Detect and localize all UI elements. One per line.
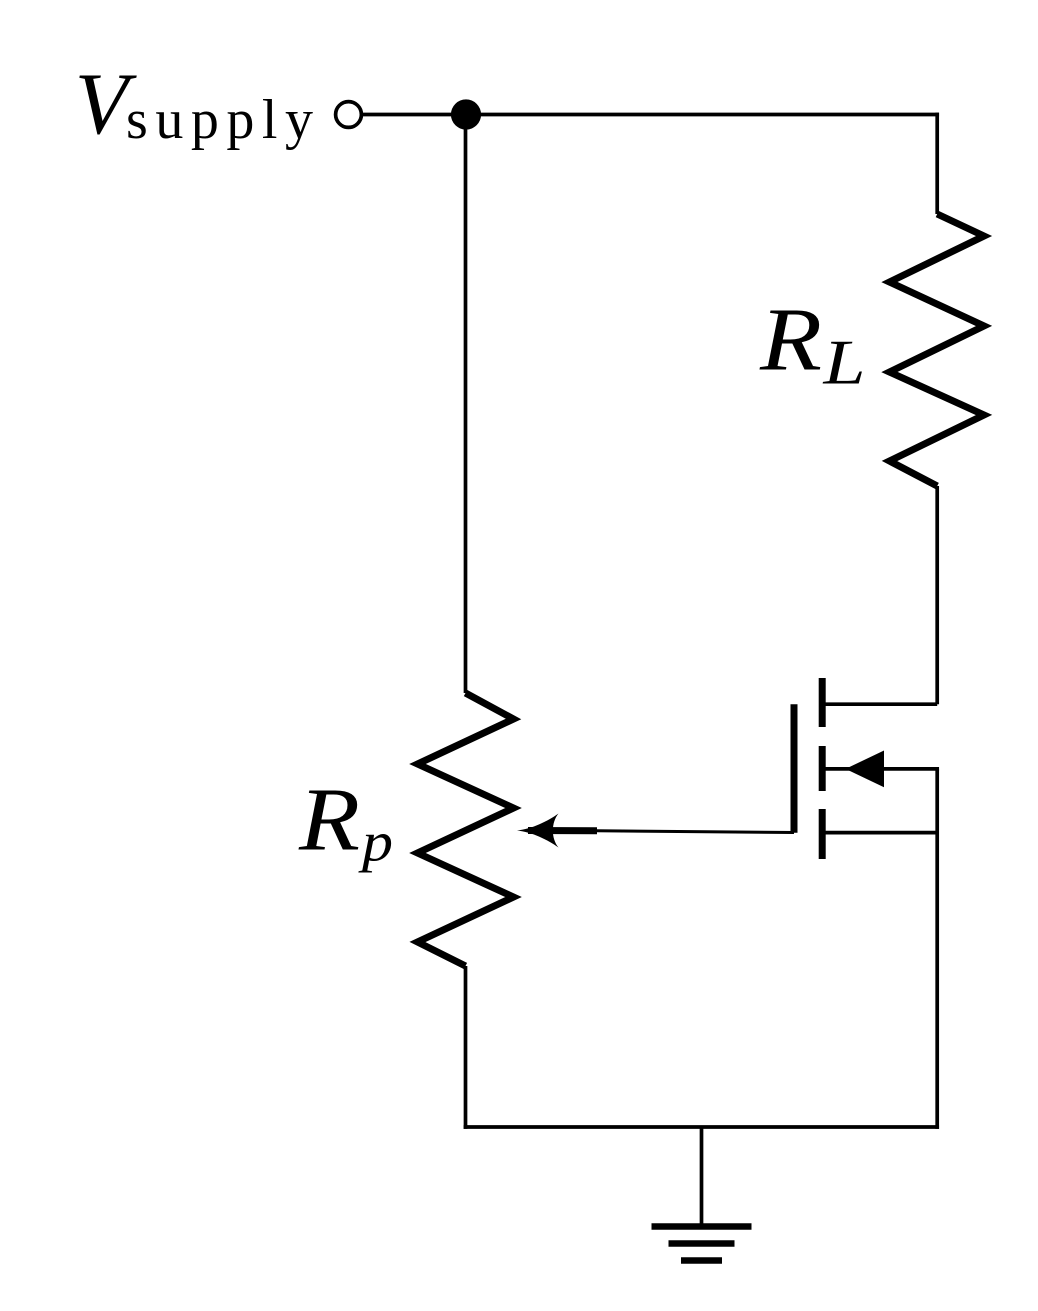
wire left rail (dot to Rp top) [464, 115, 468, 694]
label R_p [298, 771, 393, 874]
node junction dot [451, 99, 481, 129]
ground stem [700, 1127, 704, 1224]
svg-text:R: R [759, 291, 822, 390]
svg-text:R: R [298, 771, 360, 870]
potentiometer R_p wiper shaft [528, 827, 597, 834]
potentiometer R_p body [418, 693, 514, 966]
resistor R_L [890, 214, 985, 486]
transistor Q1 drain stub [822, 702, 937, 706]
label R_L [759, 291, 866, 398]
svg-text:p: p [358, 812, 393, 874]
ground bar top [652, 1223, 752, 1230]
transistor Q1 source stub [822, 831, 937, 835]
wire right rail (top corner down to RL) [935, 113, 939, 214]
transistor Q1 gate bar [791, 704, 798, 833]
wire Rp bottom down [464, 966, 468, 1129]
terminal Vsupply (open circle) [336, 102, 362, 128]
ground bar bottom [681, 1257, 722, 1264]
transistor Q1 channel dash bottom [819, 809, 826, 859]
transistor Q1 bulk arrow [846, 751, 885, 788]
wire top rail [361, 113, 939, 117]
label V_supply [75, 55, 313, 152]
transistor Q1 channel dash top [819, 678, 826, 727]
ground bar middle [669, 1240, 735, 1247]
wire RL bottom to drain [935, 486, 939, 704]
svg-text:L: L [822, 327, 865, 397]
wire source/bulk down to bottom rail [935, 769, 939, 1129]
potentiometer R_p wiper arrowhead [517, 814, 559, 848]
transistor Q1 channel dash middle [819, 746, 826, 791]
wire wiper to gate [597, 831, 794, 833]
transistor Q1 bulk wire [822, 767, 939, 771]
wire bottom rail [464, 1125, 939, 1129]
